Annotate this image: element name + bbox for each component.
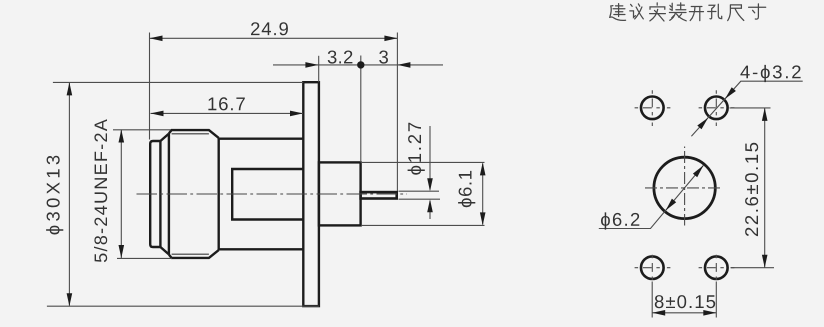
16.7 right arrow — [290, 111, 303, 117]
text 24.9 — [251, 22, 288, 35]
phi6.1 top arrow — [480, 162, 486, 175]
text phi6.2 — [601, 212, 639, 229]
text 4-phi3.2 — [740, 65, 800, 82]
crosshair big hole — [645, 187, 723, 189]
text 3.2 — [328, 51, 353, 64]
arrowheads left view — [67, 36, 486, 307]
coupling nut outline — [169, 130, 219, 258]
crosshairs — [635, 90, 735, 281]
phi6.1 ext lines — [362, 162, 485, 225]
dim line 24.9 — [150, 37, 398, 39]
hole bottom-right — [705, 256, 728, 279]
dot terminator — [357, 61, 364, 68]
dim 22.6 line — [764, 108, 766, 268]
arrow 4-phi3.2 to circle TR (down-left) — [725, 87, 736, 99]
text phi6.1 — [458, 171, 475, 207]
ext line left (24.9/16.7) — [149, 33, 151, 140]
front ring — [150, 141, 160, 247]
crosshair hole TL — [635, 107, 671, 109]
phi1.27 dim line — [429, 126, 431, 219]
body cylinder — [219, 139, 304, 250]
arrow into circle TR from lower-left (up-right) — [697, 118, 708, 130]
inner bore rectangle — [232, 169, 303, 220]
phi30 dim line — [68, 83, 70, 306]
leader 4-phi3.2 through circle — [691, 81, 802, 136]
phi30 top arrow — [67, 82, 73, 95]
dim line 16.7 — [151, 112, 304, 114]
22.6 top arrow (up) — [762, 108, 768, 121]
phi1.27 lower arrow (up) — [427, 199, 433, 212]
ring-to-nut chamfer bottom — [160, 247, 169, 254]
5/8 dim line — [120, 130, 122, 259]
char an (install location) — [650, 3, 666, 21]
char cun (inch) — [749, 4, 766, 19]
5/8 top arrow — [119, 130, 125, 143]
5/8 ext top — [113, 129, 171, 131]
16.7 left arrow — [151, 111, 164, 117]
centerline — [137, 193, 408, 195]
hole bottom-left — [641, 256, 664, 279]
arrow phi6.2 lower-left (inside big circle) — [666, 199, 677, 211]
crosshair hole TR — [699, 107, 735, 109]
ext 22.6 top — [730, 107, 771, 109]
ring-to-nut chamfer top — [160, 134, 169, 141]
text 3 — [379, 51, 388, 64]
5/8 ext bottom — [117, 257, 172, 259]
ext 22.6 bottom — [731, 267, 775, 269]
dim line 3.2 / 3 with tails — [273, 64, 443, 66]
leader phi6.2 — [599, 165, 704, 228]
nut hex flat lines — [172, 134, 209, 254]
dim 8 line — [652, 312, 716, 314]
ext line from dot to rear cyl — [360, 56, 362, 163]
dimension texts left view — [46, 22, 475, 262]
ext line right (24.9/3) — [396, 33, 398, 192]
dim 8 right arrow — [703, 310, 716, 316]
text 22.6+-0.15 — [745, 143, 758, 236]
arrowheads right view — [652, 87, 767, 315]
text phi1.27 — [408, 123, 425, 175]
pin — [361, 192, 397, 198]
char chi (ruler) — [728, 5, 744, 21]
dim 8 ext lines — [652, 282, 716, 318]
big center hole — [654, 157, 715, 218]
phi30 bottom arrow — [67, 293, 73, 306]
char yi (discuss) — [630, 4, 644, 19]
24.9 left arrow — [150, 36, 163, 42]
hole top-right — [705, 97, 728, 120]
text 8+-0.15 — [655, 295, 715, 308]
24.9 right arrow — [384, 36, 397, 42]
flange — [303, 82, 319, 306]
ext line flange right up — [318, 56, 320, 82]
text 16.7 — [208, 97, 244, 110]
3 arrow at pin tip line — [397, 62, 410, 68]
phi1.27 ext lines — [399, 191, 441, 199]
title: jian yi an zhuang kai kong chi cun — [610, 3, 766, 21]
phi30 ext bottom — [47, 305, 319, 307]
phi1.27 upper arrow (down) — [427, 178, 433, 191]
phi6.1 bottom arrow — [480, 212, 486, 225]
phi6.1 dim line — [482, 164, 484, 225]
hole top-left — [641, 97, 664, 120]
crosshair hole BL — [635, 267, 671, 269]
char jian (build) — [610, 4, 626, 21]
phi30 ext top — [53, 81, 303, 83]
3.2 arrow at flange — [305, 62, 318, 68]
5/8 bottom arrow — [119, 245, 125, 258]
arrow phi6.2 upper-right (inside big circle) — [693, 165, 704, 177]
text 5/8-24UNEF-2A — [94, 119, 107, 262]
text phi30X13 — [46, 156, 63, 235]
char kong (hole) — [708, 4, 722, 19]
crosshair hole BR — [699, 267, 735, 269]
char zhuang (mount) — [669, 3, 686, 21]
rear cylinder — [319, 162, 361, 225]
dimension texts right view — [601, 65, 801, 308]
char kai (open) — [689, 7, 703, 21]
dim 8 left arrow — [652, 310, 665, 316]
22.6 bottom arrow (down) — [762, 255, 768, 268]
